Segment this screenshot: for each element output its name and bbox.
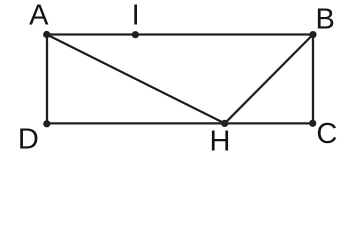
- wire segment AH: [47, 35, 225, 124]
- node A: [43, 31, 50, 38]
- wire top side AB: [47, 33, 313, 35]
- node C: [309, 120, 316, 127]
- svg-text:C: C: [316, 118, 337, 150]
- svg-text:H: H: [210, 125, 231, 157]
- svg-text:D: D: [18, 124, 39, 156]
- wire bottom side DC: [47, 122, 313, 124]
- node B: [309, 31, 316, 38]
- wire right side BC: [312, 35, 314, 124]
- node D: [43, 120, 50, 127]
- wire left side AD: [46, 35, 48, 124]
- node H: [221, 120, 228, 127]
- svg-text:A: A: [29, 0, 49, 31]
- svg-text:I: I: [132, 0, 140, 31]
- wire segment HB: [225, 35, 313, 124]
- svg-text:B: B: [316, 4, 335, 36]
- node I: [132, 31, 139, 38]
